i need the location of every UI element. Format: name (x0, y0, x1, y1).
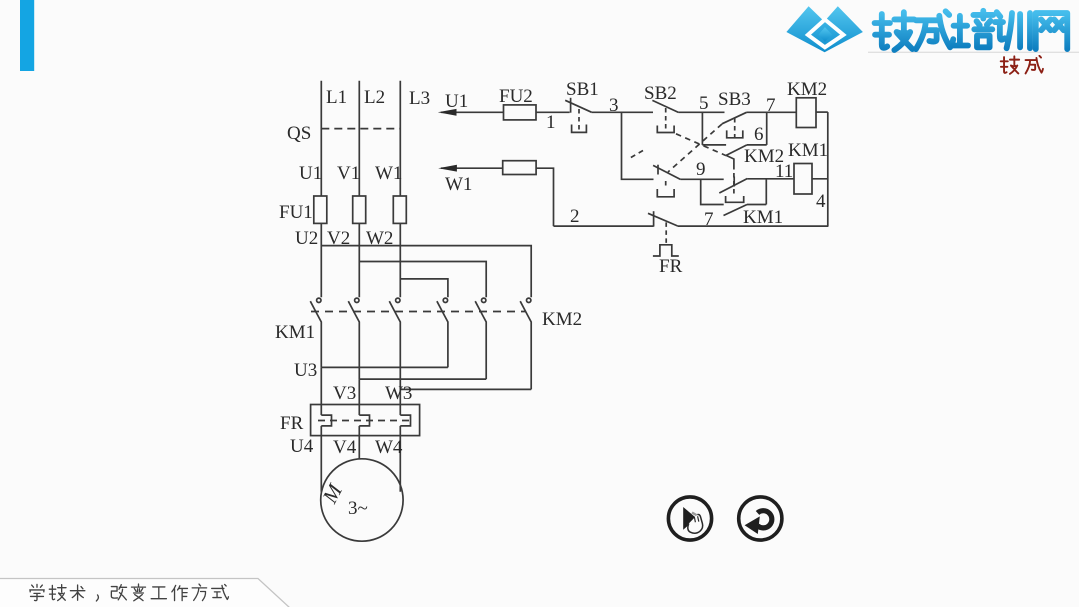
control tap arrow W1 (438, 165, 503, 172)
svg-text:SB2: SB2 (644, 83, 677, 104)
node U3 row wire (321, 366, 448, 368)
click icon ring (668, 497, 711, 540)
svg-text:U1: U1 (299, 163, 322, 184)
FR heater element 2 (359, 415, 369, 426)
control tap arrow U1 (438, 109, 504, 116)
KM2/SB3 vertical linkage (726, 155, 744, 202)
wire V2 vertical to KM1 contact (358, 223, 360, 297)
wire SB3 to node 7 to KM2 coil (747, 111, 797, 113)
wire KM2 coil to right rail (816, 111, 828, 113)
wire KM1 coil to right rail (812, 178, 828, 180)
wire L2 phase vertical (358, 81, 360, 196)
svg-text:11: 11 (775, 161, 793, 182)
contactor KM1 main contact 3 (389, 298, 400, 389)
svg-text:3: 3 (609, 95, 619, 116)
KM2 auxiliary NO contact row (self hold) (702, 145, 766, 156)
svg-text:SB3: SB3 (718, 89, 751, 110)
FR heater element 1 (321, 415, 331, 426)
pushbutton SB2 (NO start) (652, 100, 678, 132)
svg-text:FU1: FU1 (279, 202, 313, 223)
thermal relay FR box (311, 405, 420, 436)
wire V2 to KM2 contact 5 (359, 262, 486, 298)
thermal relay FR NC contact (648, 211, 679, 256)
svg-text:V3: V3 (333, 383, 356, 404)
fuse FU2 element 1 (504, 105, 537, 120)
replay icon ring (739, 497, 782, 540)
logo diamond icon (786, 6, 863, 52)
fuse FU1 element 1 (314, 196, 327, 223)
svg-text:SB1: SB1 (566, 79, 599, 100)
svg-text:6: 6 (754, 124, 764, 145)
contactor KM2 main contact 6 (520, 298, 531, 389)
contactor KM1 main contact 1 (310, 298, 321, 367)
blue corner bar (20, 0, 34, 71)
svg-text:9: 9 (696, 159, 706, 180)
FR heater element 3 (400, 415, 410, 426)
node W3 row wire (400, 388, 531, 390)
footer slogan text (30, 584, 229, 601)
stray dashed mark (630, 151, 643, 159)
svg-text:V4: V4 (333, 437, 357, 458)
node 5 vertical drop (701, 112, 703, 145)
wire V4 to motor (358, 426, 360, 459)
svg-text:FU2: FU2 (499, 86, 533, 107)
svg-text:4: 4 (816, 191, 826, 212)
fuse FU2 element 2 (503, 161, 536, 175)
logo separator line (868, 51, 1079, 53)
click icon cursor (683, 507, 702, 533)
svg-text:V2: V2 (327, 228, 350, 249)
wire SB2 to node 5 to SB3 (678, 111, 724, 113)
wire L3 phase vertical (399, 81, 401, 196)
motor M circle (321, 459, 403, 541)
contactor KM1 main contact 2 (348, 298, 359, 379)
svg-text:KM1: KM1 (275, 322, 315, 343)
wire SB1 to node 3 to SB2 (591, 111, 653, 113)
footer trapezoid (0, 579, 290, 607)
svg-text:7: 7 (766, 95, 776, 116)
wire row 9 to node 11 to KM1 coil (747, 178, 794, 180)
wire V3 down to FR (358, 379, 360, 415)
pushbutton SB1 (NC stop) (565, 98, 591, 133)
contactor KM2 main contact 5 (475, 298, 486, 379)
svg-text:W4: W4 (375, 437, 403, 458)
wire W2 vertical to KM1 contact (399, 223, 401, 297)
logo red script 技成 (1001, 56, 1043, 74)
svg-text:V1: V1 (337, 163, 360, 184)
wire U2 vertical to KM1 contact (320, 223, 322, 297)
svg-text:L2: L2 (364, 87, 385, 108)
replay icon arrow (745, 511, 772, 534)
svg-text:W3: W3 (385, 383, 412, 404)
svg-text:KM1: KM1 (788, 140, 828, 161)
fuse FU1 element 3 (393, 196, 406, 223)
svg-text:QS: QS (287, 123, 311, 144)
switch QS dashed linkage (321, 128, 400, 130)
svg-text:U1: U1 (445, 91, 468, 112)
svg-text:U3: U3 (294, 360, 317, 381)
bottom rail wire (554, 225, 654, 227)
wire U3 down to FR (320, 367, 322, 415)
svg-text:KM2: KM2 (787, 79, 827, 100)
svg-text:2: 2 (570, 206, 580, 227)
svg-text:7: 7 (704, 209, 714, 230)
wire FU2 to SB1 (536, 111, 570, 113)
svg-text:KM2: KM2 (542, 309, 582, 330)
node 3 vertical drop (622, 112, 654, 179)
wire U4 to motor (320, 426, 322, 492)
wire W2 to KM2 contact 4 (400, 279, 448, 297)
wire W4 to motor (399, 426, 401, 492)
wire fuse to node 2 (536, 168, 553, 226)
svg-text:FR: FR (659, 256, 683, 277)
svg-text:W1: W1 (445, 174, 472, 195)
wire U2 to KM2 contact 6 (321, 246, 531, 298)
contactor coil KM1 (794, 164, 812, 195)
interlock contact KM2 NC on row 9 (719, 179, 747, 194)
svg-text:3~: 3~ (348, 498, 368, 519)
wire L1 phase vertical (320, 81, 322, 196)
svg-text:U2: U2 (295, 228, 318, 249)
right rail vertical (827, 112, 829, 226)
dashed link SB3 to row 9 contact (668, 124, 722, 172)
node V3 row wire (359, 378, 486, 380)
wire W3 down to FR (399, 389, 401, 415)
svg-text:U4: U4 (290, 436, 314, 457)
KM1 self-hold loop (701, 179, 767, 215)
svg-text:KM1: KM1 (743, 207, 783, 228)
svg-text:5: 5 (699, 93, 709, 114)
pushbutton SB3 second contact on row 9 (653, 165, 680, 197)
dashed link SB2 to lower contact (676, 134, 726, 156)
svg-text:W2: W2 (366, 228, 393, 249)
node 7 vertical drop (766, 112, 768, 145)
wire row 9 (680, 178, 723, 180)
SCHEMATIC LABELS (275, 79, 828, 519)
svg-text:W1: W1 (375, 163, 402, 184)
logo text 技成培训网 (875, 11, 1068, 50)
fuse FU1 element 2 (353, 196, 366, 223)
pushbutton SB3 (NC) on top row (722, 112, 747, 138)
svg-text:FR: FR (280, 413, 304, 434)
svg-text:1: 1 (546, 112, 556, 133)
FR dashed linkage (318, 420, 414, 422)
contactor KM2 main contact 4 (437, 298, 448, 367)
svg-text:L1: L1 (326, 87, 347, 108)
svg-text:L3: L3 (409, 88, 430, 109)
contactor coil KM2 (796, 98, 816, 128)
bottom rail wire right (677, 225, 828, 227)
dashed mechanical linkage of main contacts (311, 311, 526, 313)
